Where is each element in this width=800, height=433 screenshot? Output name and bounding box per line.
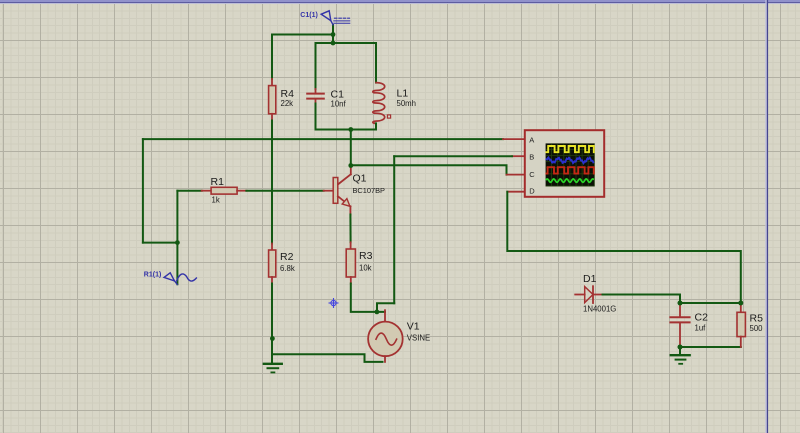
svg-text:C2: C2 [695,311,709,323]
label scope channel D [529,187,535,196]
resistor R1 [202,187,247,194]
svg-text:R1: R1 [211,176,225,188]
label C1 ref [331,89,345,101]
junction probe/top-wire [331,32,336,37]
scope pin A stub [503,138,525,140]
svg-text:1k: 1k [212,195,220,204]
junction V1 top [375,310,380,315]
wire R1-left vertical [176,191,178,285]
svg-text:C1(1): C1(1) [300,12,318,19]
svg-text:VSINE: VSINE [407,334,430,343]
junction C2 top (dot) [678,301,683,306]
label L1 value [397,99,417,108]
wire R4-top to probe junction [272,34,333,36]
label C2 ref [695,311,709,323]
svg-text:10k: 10k [359,264,372,273]
junction C2 bottom [678,345,683,350]
svg-text:C: C [529,170,535,179]
capacitor C1 [307,89,324,104]
wire D1 to C2 node [603,295,681,304]
label scope channel C [529,170,535,179]
label L1 ref [397,87,409,99]
junction probe branch [175,240,180,245]
label R3 value [359,264,372,273]
scope pin B stub [512,155,525,157]
svg-text:R3: R3 [359,250,373,262]
wire scope-A horizontal [143,138,503,140]
label R4 ref [281,88,295,100]
wire tank left lower [315,104,317,130]
scope trace D (green) [546,179,593,182]
wire base [246,190,323,192]
label V1 value [407,334,430,343]
diode D1 [575,286,602,303]
wire gnd to V1 bottom [272,354,383,362]
scope pin C stub [507,174,525,176]
wire C2-R5 bottom [680,346,741,348]
svg-text:R2: R2 [280,251,294,263]
source V1 [368,310,403,362]
voltage probe R1(1) [164,273,196,285]
resistor R4 [269,79,276,121]
svg-text:1uf: 1uf [695,324,707,333]
label D1 ref [583,273,597,285]
svg-text:D1: D1 [583,273,597,285]
label scope channel B [529,153,534,162]
label C1 value [331,99,347,108]
wire scope-B horizontal [394,155,512,157]
label C2 value [695,324,707,333]
scope pin D stub [507,191,525,193]
wire R2 to ground [271,284,273,364]
svg-text:1N4001G: 1N4001G [583,305,616,314]
label Q1 ref [353,172,367,184]
wire tank right lower [375,123,377,129]
label R3 ref [359,250,373,262]
oscilloscope [525,130,604,197]
scope trace C (red) [546,167,593,173]
label R1 ref [211,176,225,188]
origin marker [329,298,339,308]
wire tank-bottom to collector [350,130,352,166]
label R2 value [280,264,295,273]
svg-text:6.8k: 6.8k [280,264,295,273]
junction R5 top [738,301,743,306]
ground (left) [264,364,282,373]
label V1 ref [407,321,420,333]
svg-text:R4: R4 [281,88,295,100]
junction C2 top [678,301,683,306]
label R4 value [281,99,294,108]
scope trace B (blue) [546,157,593,163]
label R5 value [750,324,764,333]
wire B step [377,303,394,312]
junction collector [348,163,353,168]
svg-text:50mh: 50mh [397,99,417,108]
resistor R5 [737,303,745,347]
wire tank bottom [316,129,377,131]
label scope channel A [529,135,534,144]
svg-text:V1: V1 [407,321,420,333]
wire scope-D path [507,192,741,303]
svg-text:A: A [529,135,534,144]
label R2 ref [280,251,294,263]
junction C2 bottom (dot) [678,345,683,350]
svg-text:22k: 22k [281,99,294,108]
junction R5 top (dot) [738,301,743,306]
svg-text:500: 500 [750,324,764,333]
wire scope-B vertical [393,156,395,303]
label D1 value [583,305,616,314]
resistor R3 [346,242,355,283]
scope trace A (yellow) [546,146,593,152]
wire probe stem [332,25,334,43]
svg-text:R5: R5 [750,313,764,325]
wire collector to scope C [351,165,507,174]
label C1(1) [300,12,318,19]
scope screen [546,143,595,186]
svg-text:B: B [529,153,534,162]
junction tank bottom [348,127,353,132]
svg-text:R1(1): R1(1) [144,271,162,278]
wire C2 to ground [679,347,681,355]
wire C2-R5 top [680,302,741,304]
voltage probe C1(1) [321,11,350,25]
svg-text:BC107BP: BC107BP [353,186,386,195]
wire horizontal to junction [143,242,178,244]
wire tank left upper [315,43,317,89]
ground (right) [671,355,690,364]
inductor L1 [373,83,391,124]
label R1 value [212,195,220,204]
wire left vertical [142,139,144,243]
svg-text:L1: L1 [397,87,409,99]
wire R3 to V1 node [351,284,385,312]
junction probe/tank-top [331,41,336,46]
label R1(1) [144,271,162,278]
svg-text:10nf: 10nf [331,99,347,108]
label R5 ref [750,313,764,325]
wire tank right upper [375,43,377,83]
wire emitter to R3 [349,215,351,243]
label Q1 value [353,186,386,195]
wire tank top [316,42,377,44]
svg-text:D: D [529,187,535,196]
svg-text:Q1: Q1 [353,172,367,184]
wire R1 left [177,190,201,192]
wire R4-R2 [271,121,273,244]
transistor Q1 [324,167,351,215]
wire R4 top [271,35,273,80]
junction on R2-gnd wire [270,336,275,341]
resistor R2 [269,244,276,284]
capacitor C2 [670,303,689,347]
